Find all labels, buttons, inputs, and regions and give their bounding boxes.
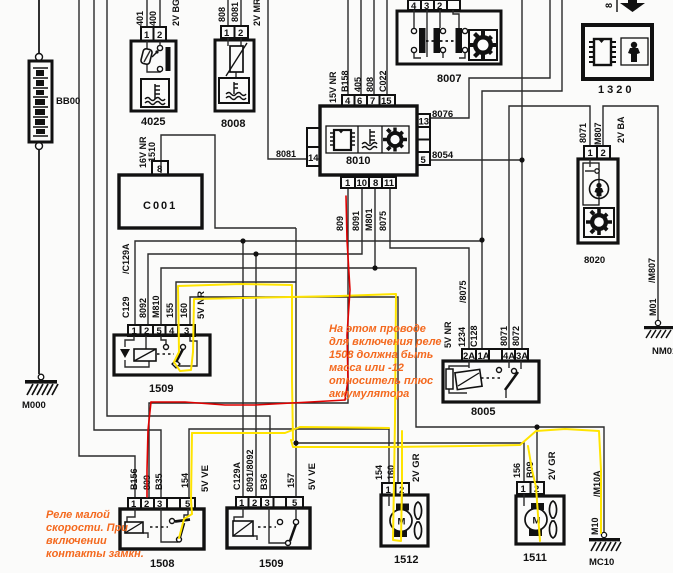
svg-text:1509: 1509 bbox=[259, 558, 283, 570]
svg-text:8: 8 bbox=[157, 164, 162, 175]
fan motor 1511 bbox=[516, 482, 564, 544]
svg-text:Реле малой: Реле малой bbox=[46, 509, 110, 521]
pump unit 8020 bbox=[578, 146, 618, 243]
ground M000 bbox=[25, 374, 58, 395]
svg-text:M10: M10 bbox=[590, 517, 600, 535]
svg-text:10: 10 bbox=[357, 178, 368, 189]
wire net B35: left riser to 1508 pin3 bbox=[94, 0, 161, 498]
fan motor 1512 bbox=[381, 483, 428, 546]
wire 4025 pin2 bbox=[159, 0, 161, 27]
svg-text:контакты замкн.: контакты замкн. bbox=[46, 548, 144, 560]
wire net 8054/8072: vertical top edge to 8005 pin3A bbox=[521, 0, 523, 349]
wire net M807: 8020 pin2 to ground NM01 bbox=[603, 106, 658, 320]
junction C128 bbox=[479, 237, 484, 242]
svg-text:4: 4 bbox=[169, 326, 175, 337]
svg-text:M807: M807 bbox=[593, 122, 603, 145]
svg-text:1: 1 bbox=[345, 178, 351, 189]
wire 8008 pin1 bbox=[227, 0, 229, 26]
svg-text:400: 400 bbox=[148, 11, 158, 26]
svg-text:1: 1 bbox=[386, 485, 392, 496]
relay 8005 bbox=[443, 349, 539, 402]
svg-text:C129: C129 bbox=[121, 296, 131, 318]
wire net 8076: 8010 pin13 to top edge bbox=[429, 0, 550, 118]
svg-text:NM01: NM01 bbox=[652, 346, 673, 357]
svg-text:8: 8 bbox=[373, 178, 378, 189]
control unit C001 bbox=[119, 161, 202, 228]
svg-text:8091: 8091 bbox=[351, 211, 361, 231]
svg-text:5: 5 bbox=[157, 326, 163, 337]
svg-text:809: 809 bbox=[335, 216, 345, 231]
wire net B36: left riser to 1509b pin3 bbox=[107, 0, 270, 498]
control unit 1320 bbox=[583, 25, 652, 79]
svg-text:M801: M801 bbox=[364, 208, 374, 231]
svg-text:5: 5 bbox=[292, 498, 298, 509]
svg-text:4: 4 bbox=[345, 96, 351, 107]
wire 8010 top pin4 bbox=[347, 0, 349, 95]
annotation note center bbox=[329, 323, 442, 400]
wire branch M801 to 1511 pin2 bbox=[536, 427, 538, 483]
svg-text:2V GR: 2V GR bbox=[547, 451, 558, 480]
svg-text:1: 1 bbox=[521, 484, 527, 495]
svg-text:7: 7 bbox=[370, 96, 375, 107]
wire branch 8092 to 1509b pin2 bbox=[255, 254, 257, 498]
yellow highlight 1509 contact loop bbox=[174, 352, 193, 371]
svg-text:8081: 8081 bbox=[230, 2, 240, 22]
svg-text:160: 160 bbox=[179, 303, 189, 318]
thermistor sensor 8008 bbox=[215, 26, 254, 111]
svg-text:1: 1 bbox=[588, 148, 594, 159]
yellow highlight 1508 pin5 drop bbox=[179, 433, 192, 538]
svg-text:1509: 1509 bbox=[149, 383, 173, 395]
ground MC10 bbox=[589, 532, 621, 551]
relay 1509 top bbox=[114, 325, 210, 375]
yellow highlight 1511 pin2 drop bbox=[528, 446, 540, 541]
relay 1508 bbox=[120, 498, 204, 549]
wire net 8091/8092: 8010 pin10 to relays 1509 pin2 bbox=[148, 188, 362, 326]
wire net 155/157: riser to 1509b pin5 bbox=[295, 228, 297, 498]
wire net M801: 8010 pin8 down bbox=[374, 188, 376, 268]
svg-text:1511: 1511 bbox=[523, 552, 547, 564]
svg-text:2V BG: 2V BG bbox=[171, 0, 181, 26]
svg-text:BB00: BB00 bbox=[56, 96, 80, 107]
wire net 8075: 8010 pin11 to 8005 pin2A bbox=[390, 188, 469, 349]
svg-text:для включения реле: для включения реле bbox=[329, 336, 442, 348]
svg-text:154: 154 bbox=[374, 465, 384, 480]
svg-text:8092: 8092 bbox=[138, 298, 148, 318]
svg-text:/C129A: /C129A bbox=[121, 243, 131, 274]
svg-text:4A: 4A bbox=[503, 351, 515, 362]
svg-text:8075: 8075 bbox=[378, 211, 388, 231]
wire net C128 riser to 8005 pin1A and top edge bbox=[482, 0, 562, 349]
wire 8008 pin2 bbox=[240, 0, 242, 26]
svg-text:На этом проводе: На этом проводе bbox=[329, 323, 426, 335]
svg-text:M810: M810 bbox=[151, 295, 161, 318]
wire battery feed BB00 top bbox=[38, 0, 40, 54]
wire 8010 top pin15 bbox=[386, 0, 388, 95]
svg-text:C022: C022 bbox=[378, 70, 388, 92]
svg-text:808: 808 bbox=[365, 77, 375, 92]
control unit 8010 bbox=[307, 95, 430, 189]
wire net 160: 1509 pin3 to 1512 pin2 bbox=[190, 297, 398, 483]
svg-text:5V VE: 5V VE bbox=[200, 465, 211, 492]
svg-text:15: 15 bbox=[381, 96, 392, 107]
svg-text:1512: 1512 bbox=[394, 554, 418, 566]
svg-text:8: 8 bbox=[604, 3, 614, 8]
svg-text:1320: 1320 bbox=[598, 84, 634, 96]
yellow highlight net 160 bbox=[193, 294, 402, 541]
svg-text:2: 2 bbox=[252, 498, 257, 509]
svg-text:1A: 1A bbox=[478, 351, 490, 362]
wire net 1510: C001 pin8 loop bbox=[161, 135, 296, 228]
wire net 809: 8010 pin1 to 1508 pin2 bbox=[149, 188, 348, 498]
svg-text:C128: C128 bbox=[469, 325, 479, 347]
svg-text:включении: включении bbox=[46, 535, 107, 547]
svg-text:C129A: C129A bbox=[232, 461, 242, 490]
svg-text:155: 155 bbox=[165, 303, 175, 318]
svg-text:1: 1 bbox=[239, 498, 245, 509]
svg-text:2: 2 bbox=[601, 148, 606, 159]
svg-text:8071: 8071 bbox=[578, 123, 588, 143]
junction 157/156 bbox=[293, 440, 298, 445]
fan speed switch 8007 bbox=[397, 0, 501, 64]
svg-text:5: 5 bbox=[421, 155, 427, 166]
wire BB00 to ground M000 bbox=[38, 150, 40, 374]
thermo switch 4025 bbox=[131, 27, 176, 111]
battery/fuse box BB00 bbox=[29, 54, 52, 150]
wire 8010 top pin6 bbox=[360, 0, 362, 95]
wire net 155 to 1509 pin4 bbox=[176, 282, 296, 326]
svg-text:8005: 8005 bbox=[471, 406, 495, 418]
svg-text:3: 3 bbox=[265, 498, 270, 509]
junction 8054 bbox=[519, 157, 524, 162]
wire 8010 top pin7 bbox=[373, 0, 375, 95]
svg-text:2A: 2A bbox=[463, 351, 475, 362]
svg-text:11: 11 bbox=[384, 178, 395, 189]
wire net 8081: top edge to 8010 pin14 bbox=[268, 0, 308, 159]
svg-text:157: 157 bbox=[286, 473, 296, 488]
svg-text:2: 2 bbox=[238, 28, 243, 39]
svg-text:808: 808 bbox=[217, 7, 227, 22]
wire 4025 pin1 bbox=[146, 0, 148, 27]
svg-text:8007: 8007 bbox=[437, 73, 461, 85]
svg-text:6: 6 bbox=[357, 96, 362, 107]
svg-text:8054: 8054 bbox=[432, 150, 454, 161]
ground NM01 bbox=[644, 320, 673, 338]
wire net C129 bus: 1509 pin1 across bbox=[135, 241, 482, 326]
svg-text:3: 3 bbox=[184, 326, 189, 337]
svg-text:15V NR: 15V NR bbox=[328, 71, 338, 103]
svg-text:B35: B35 bbox=[154, 473, 164, 490]
red highlight net 809 vertical bbox=[345, 196, 350, 400]
svg-text:аккумулятора: аккумулятора bbox=[329, 388, 409, 400]
svg-text:1: 1 bbox=[131, 499, 137, 510]
wire net 154: 1508 pin5 to 1512 pin1 bbox=[189, 429, 389, 498]
yellow highlight net 155 branch bbox=[178, 284, 293, 440]
annotation note left bbox=[46, 509, 144, 560]
svg-text:405: 405 bbox=[353, 77, 363, 92]
svg-text:156: 156 bbox=[512, 463, 522, 478]
yellow highlight net 154 bbox=[192, 427, 389, 433]
svg-text:13: 13 bbox=[419, 117, 430, 128]
svg-text:2V MR: 2V MR bbox=[252, 0, 262, 26]
svg-text:5V NR: 5V NR bbox=[443, 321, 453, 348]
svg-text:1: 1 bbox=[224, 28, 230, 39]
red highlight net 809 horizontal bbox=[151, 400, 345, 405]
svg-text:3: 3 bbox=[157, 499, 162, 510]
svg-text:8071: 8071 bbox=[499, 326, 509, 346]
junction 8092 bbox=[253, 251, 258, 256]
svg-text:M000: M000 bbox=[22, 400, 46, 411]
svg-text:2V GR: 2V GR bbox=[411, 453, 422, 482]
wire net 156: to 1511 pin1 bbox=[296, 443, 524, 483]
svg-text:относитель плюс: относитель плюс bbox=[329, 375, 433, 387]
svg-text:2: 2 bbox=[144, 326, 149, 337]
svg-text:MC10: MC10 bbox=[589, 557, 614, 568]
svg-text:8072: 8072 bbox=[511, 326, 521, 346]
svg-text:2V BA: 2V BA bbox=[616, 116, 626, 143]
relay 1509 bottom bbox=[227, 497, 310, 548]
junction 1511 branch bbox=[534, 424, 539, 429]
wire net 8054: 8010 pin5 bbox=[429, 159, 522, 161]
svg-text:1508: 1508 bbox=[150, 558, 174, 570]
svg-text:1: 1 bbox=[132, 326, 138, 337]
svg-text:154: 154 bbox=[180, 473, 190, 488]
svg-text:8081: 8081 bbox=[276, 149, 296, 159]
wire net B156: left riser to 1508 pin1 bbox=[79, 0, 135, 498]
wire branch C129A to 1509b pin1 bbox=[242, 241, 244, 498]
svg-text:C001: C001 bbox=[143, 200, 177, 212]
svg-text:401: 401 bbox=[135, 11, 145, 26]
svg-text:масса или -12: масса или -12 bbox=[329, 362, 404, 374]
svg-text:8008: 8008 bbox=[221, 118, 245, 130]
svg-text:B156: B156 bbox=[129, 468, 139, 490]
junction M801 bbox=[372, 265, 377, 270]
svg-text:5V VE: 5V VE bbox=[307, 463, 318, 490]
svg-text:B158: B158 bbox=[340, 70, 350, 92]
wire net M810 horizontal to 1509 pin5 bbox=[161, 268, 604, 534]
svg-text:3A: 3A bbox=[516, 351, 528, 362]
svg-text:8010: 8010 bbox=[346, 155, 370, 167]
svg-text:1510: 1510 bbox=[147, 142, 157, 162]
svg-text:/8075: /8075 bbox=[458, 280, 468, 303]
svg-text:2: 2 bbox=[144, 499, 149, 510]
svg-text:4025: 4025 bbox=[141, 116, 165, 128]
svg-text:8020: 8020 bbox=[584, 255, 605, 266]
label 8 with connector arrow above 1320 bbox=[604, 0, 645, 12]
svg-text:скорости. При: скорости. При bbox=[46, 522, 128, 534]
svg-text:8076: 8076 bbox=[432, 109, 453, 120]
svg-text:2: 2 bbox=[157, 30, 162, 41]
svg-text:5V NR: 5V NR bbox=[196, 291, 207, 319]
svg-text:M01: M01 bbox=[648, 298, 658, 316]
svg-text:B36: B36 bbox=[259, 473, 269, 490]
wire net 8071: 8005 pin4A to 8020 pin1 bbox=[509, 106, 590, 349]
svg-text:14: 14 bbox=[308, 153, 319, 164]
svg-text:/M807: /M807 bbox=[647, 258, 657, 283]
svg-text:8091/8092: 8091/8092 bbox=[245, 449, 255, 492]
yellow highlight net 156 to ground bbox=[291, 429, 601, 533]
svg-text:1: 1 bbox=[144, 30, 150, 41]
svg-text:1508 должна быть: 1508 должна быть bbox=[329, 349, 433, 361]
junction C129A bbox=[240, 238, 245, 243]
svg-text:1234: 1234 bbox=[457, 327, 467, 347]
red highlight 1508 pin2 drop bbox=[147, 402, 151, 497]
